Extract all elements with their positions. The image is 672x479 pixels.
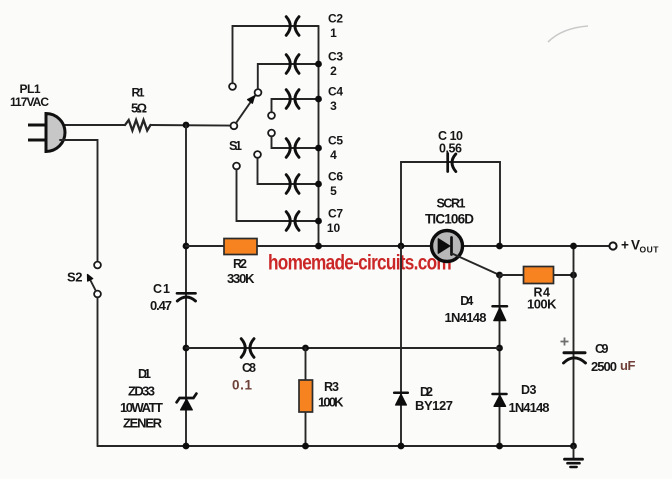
svg-text:homemade-circuits.com: homemade-circuits.com	[268, 252, 452, 275]
wire: plug lower to S2 branch corner	[60, 140, 98, 262]
svg-text:1N4148: 1N4148	[445, 310, 487, 325]
switch S2 upper contact	[94, 262, 101, 269]
node: C10 left on mid bus	[398, 243, 405, 250]
watermark homemade-circuits.com	[268, 252, 452, 275]
switch S1 contact P6	[233, 163, 240, 170]
wire: gate junction to C9 branch through R4	[500, 274, 574, 276]
svg-text:117VAC: 117VAC	[10, 95, 49, 109]
node: R4 right junction	[570, 272, 577, 279]
node: C9 bottom junction	[570, 443, 577, 450]
switch S1 contact P5	[254, 151, 261, 158]
ground symbol	[565, 446, 583, 467]
stray scan mark	[548, 26, 588, 42]
switch S1 contact P1	[229, 83, 236, 90]
wire: P2 to C3	[258, 64, 319, 89]
svg-text:TIC106D: TIC106D	[425, 212, 474, 227]
capacitor C4 left plate	[286, 90, 290, 109]
wire: R1 to S1 common	[151, 124, 231, 127]
svg-text:ZENER: ZENER	[123, 416, 163, 431]
wire: bottom ground bus	[98, 445, 574, 447]
capacitor C3 right plate	[295, 55, 299, 74]
thyristor SCR1 cathode bar	[450, 238, 453, 255]
svg-text:+V: +V	[621, 238, 640, 253]
wire: D4/D3 vertical branch	[499, 275, 501, 446]
capacitor C6 right plate	[295, 175, 299, 194]
thyristor SCR1 body circle	[432, 231, 463, 262]
node: junction R1/S1/vertical bus	[183, 122, 190, 129]
diode D4 triangle	[494, 308, 506, 321]
resistor R1 zigzag	[125, 120, 151, 131]
svg-text:2500: 2500	[591, 359, 617, 374]
switch S1 contact P4	[268, 130, 275, 137]
svg-text:100K: 100K	[318, 395, 344, 410]
svg-text:2: 2	[330, 64, 337, 78]
capacitor C8 left plate	[241, 339, 245, 358]
capacitor C3 left plate	[286, 55, 290, 74]
node: gate junction	[496, 272, 503, 279]
capacitor C9 bottom curved plate	[564, 358, 586, 363]
switch S2 lower contact	[94, 291, 101, 298]
svg-text:S2: S2	[67, 270, 83, 285]
svg-text:1: 1	[330, 26, 337, 40]
svg-text:C8: C8	[242, 361, 256, 375]
svg-text:PL1: PL1	[20, 82, 41, 96]
switch S1 arm	[236, 95, 256, 123]
node: C3 bus junction	[315, 61, 322, 68]
capacitor C8 right plate	[250, 339, 254, 358]
capacitor C1 top plate	[177, 292, 196, 295]
node: C10 right on mid bus	[496, 243, 503, 250]
svg-text:C2: C2	[328, 12, 343, 26]
node: R3 bottom junction	[302, 443, 309, 450]
capacitor C2 left plate	[286, 17, 290, 36]
capacitor C4 right plate	[295, 90, 299, 109]
node: C7 bus junction	[315, 218, 322, 225]
zener diode D1 triangle	[181, 399, 193, 410]
wire: mid bus y=246 from vertical bus to output	[186, 245, 609, 247]
svg-text:R3: R3	[324, 380, 339, 394]
node: bus/R2 junction	[183, 243, 190, 250]
wire: P1 to C2	[233, 26, 319, 83]
svg-text:4: 4	[330, 148, 337, 162]
svg-text:100K: 100K	[527, 297, 557, 312]
wire: C8 line y=348	[186, 347, 500, 349]
svg-text:330K: 330K	[227, 271, 255, 286]
node: R3 top junction	[302, 345, 309, 352]
node: C9 top on mid bus	[570, 243, 577, 250]
zener diode D1 bar	[177, 394, 197, 403]
wire: top main from plug to R1	[58, 124, 125, 126]
capacitor C5 right plate	[295, 139, 299, 158]
svg-text:D1: D1	[138, 367, 151, 381]
svg-text:OUT: OUT	[640, 245, 660, 255]
wire: C10 loop	[401, 162, 500, 246]
diode D4 cathode bar	[493, 305, 508, 308]
svg-text:D3: D3	[521, 383, 537, 397]
resistor R4 body	[524, 267, 554, 284]
wire: D2 vertical branch	[400, 246, 402, 446]
diode D2 triangle	[396, 394, 407, 405]
thyristor SCR1 gate lead	[452, 254, 500, 276]
capacitor C2 right plate	[295, 17, 299, 36]
wire: S2 down to bottom bus	[97, 297, 99, 446]
capacitor C7 left plate	[286, 212, 290, 231]
output terminal circle	[609, 242, 616, 249]
plug PL1 bottom prong	[28, 139, 47, 142]
switch S1 common contact	[231, 122, 238, 129]
capacitor C9 top plate	[564, 351, 585, 354]
svg-text:3: 3	[330, 99, 337, 113]
capacitor C5 left plate	[286, 139, 290, 158]
diode D3 triangle	[494, 395, 506, 406]
svg-text:C9: C9	[595, 342, 609, 356]
svg-text:1N4148: 1N4148	[509, 400, 550, 415]
svg-text:0.47: 0.47	[150, 298, 172, 313]
thyristor SCR1 anode triangle	[438, 239, 450, 253]
svg-text:C7: C7	[328, 207, 343, 221]
svg-text:ZD33: ZD33	[128, 384, 155, 399]
node: C5 bus junction	[315, 145, 322, 152]
node: D3 bottom junction	[496, 443, 503, 450]
switch S1 contact P3	[268, 112, 275, 119]
capacitor C9 polarity plus	[561, 338, 569, 346]
resistor R3 body	[299, 380, 313, 412]
node: bus/bottom junction	[183, 443, 190, 450]
svg-text:S1: S1	[229, 139, 242, 153]
capacitor C7 right plate	[295, 212, 299, 231]
wire: C9 vertical branch	[573, 246, 575, 446]
wire: capacitor bank right bus	[318, 26, 320, 246]
wire: P5 to C6	[258, 158, 319, 184]
diode D2 cathode bar	[394, 392, 408, 395]
node: bus/C8 junction	[183, 345, 190, 352]
svg-text:C1: C1	[153, 282, 170, 296]
svg-text:D4: D4	[460, 294, 473, 308]
capacitor C10 right curved plate	[452, 154, 456, 172]
svg-text:uF: uF	[620, 358, 636, 373]
svg-text:0.1: 0.1	[232, 378, 252, 393]
capacitor C6 left plate	[286, 175, 290, 194]
capacitor C10 left straight plate	[446, 154, 449, 172]
wire: P4 to C5	[272, 136, 319, 148]
svg-text:10WATT: 10WATT	[120, 400, 163, 415]
svg-text:R1: R1	[132, 86, 145, 100]
svg-text:R2: R2	[233, 257, 247, 271]
svg-text:SCR1: SCR1	[437, 197, 466, 211]
plug PL1 body	[46, 114, 65, 152]
resistor R2 body	[224, 239, 257, 255]
svg-text:C4: C4	[328, 85, 343, 99]
node: D2 bottom junction	[398, 443, 405, 450]
svg-text:C3: C3	[328, 50, 343, 64]
wire: main vertical bus x=186	[185, 125, 187, 446]
svg-text:0.56: 0.56	[439, 142, 462, 156]
plug PL1 top prong	[28, 124, 47, 127]
wire: R3 branch	[305, 348, 307, 446]
diode D3 cathode bar	[493, 393, 507, 396]
svg-text:BY127: BY127	[415, 398, 453, 413]
svg-text:5: 5	[330, 184, 337, 198]
node: bank bus junction on mid bus	[315, 243, 322, 250]
svg-text:C5: C5	[328, 134, 343, 148]
svg-text:5Ω: 5Ω	[131, 101, 147, 116]
capacitor C1 bottom curved plate	[177, 297, 195, 301]
svg-text:10: 10	[327, 221, 341, 235]
svg-text:D2: D2	[420, 385, 433, 399]
switch S2 arm arrowhead	[88, 275, 93, 282]
node: C6 bus junction	[315, 181, 322, 188]
wire: P6 to C7	[237, 169, 319, 221]
switch S2 arm	[89, 278, 96, 291]
node: C4 bus junction	[315, 96, 322, 103]
wire: P3 to C4	[272, 99, 319, 112]
node: D4/C8 junction	[496, 345, 503, 352]
switch S1 arm arrowhead	[248, 96, 255, 103]
switch S1 contact P2	[255, 89, 262, 96]
svg-text:C6: C6	[328, 170, 343, 184]
